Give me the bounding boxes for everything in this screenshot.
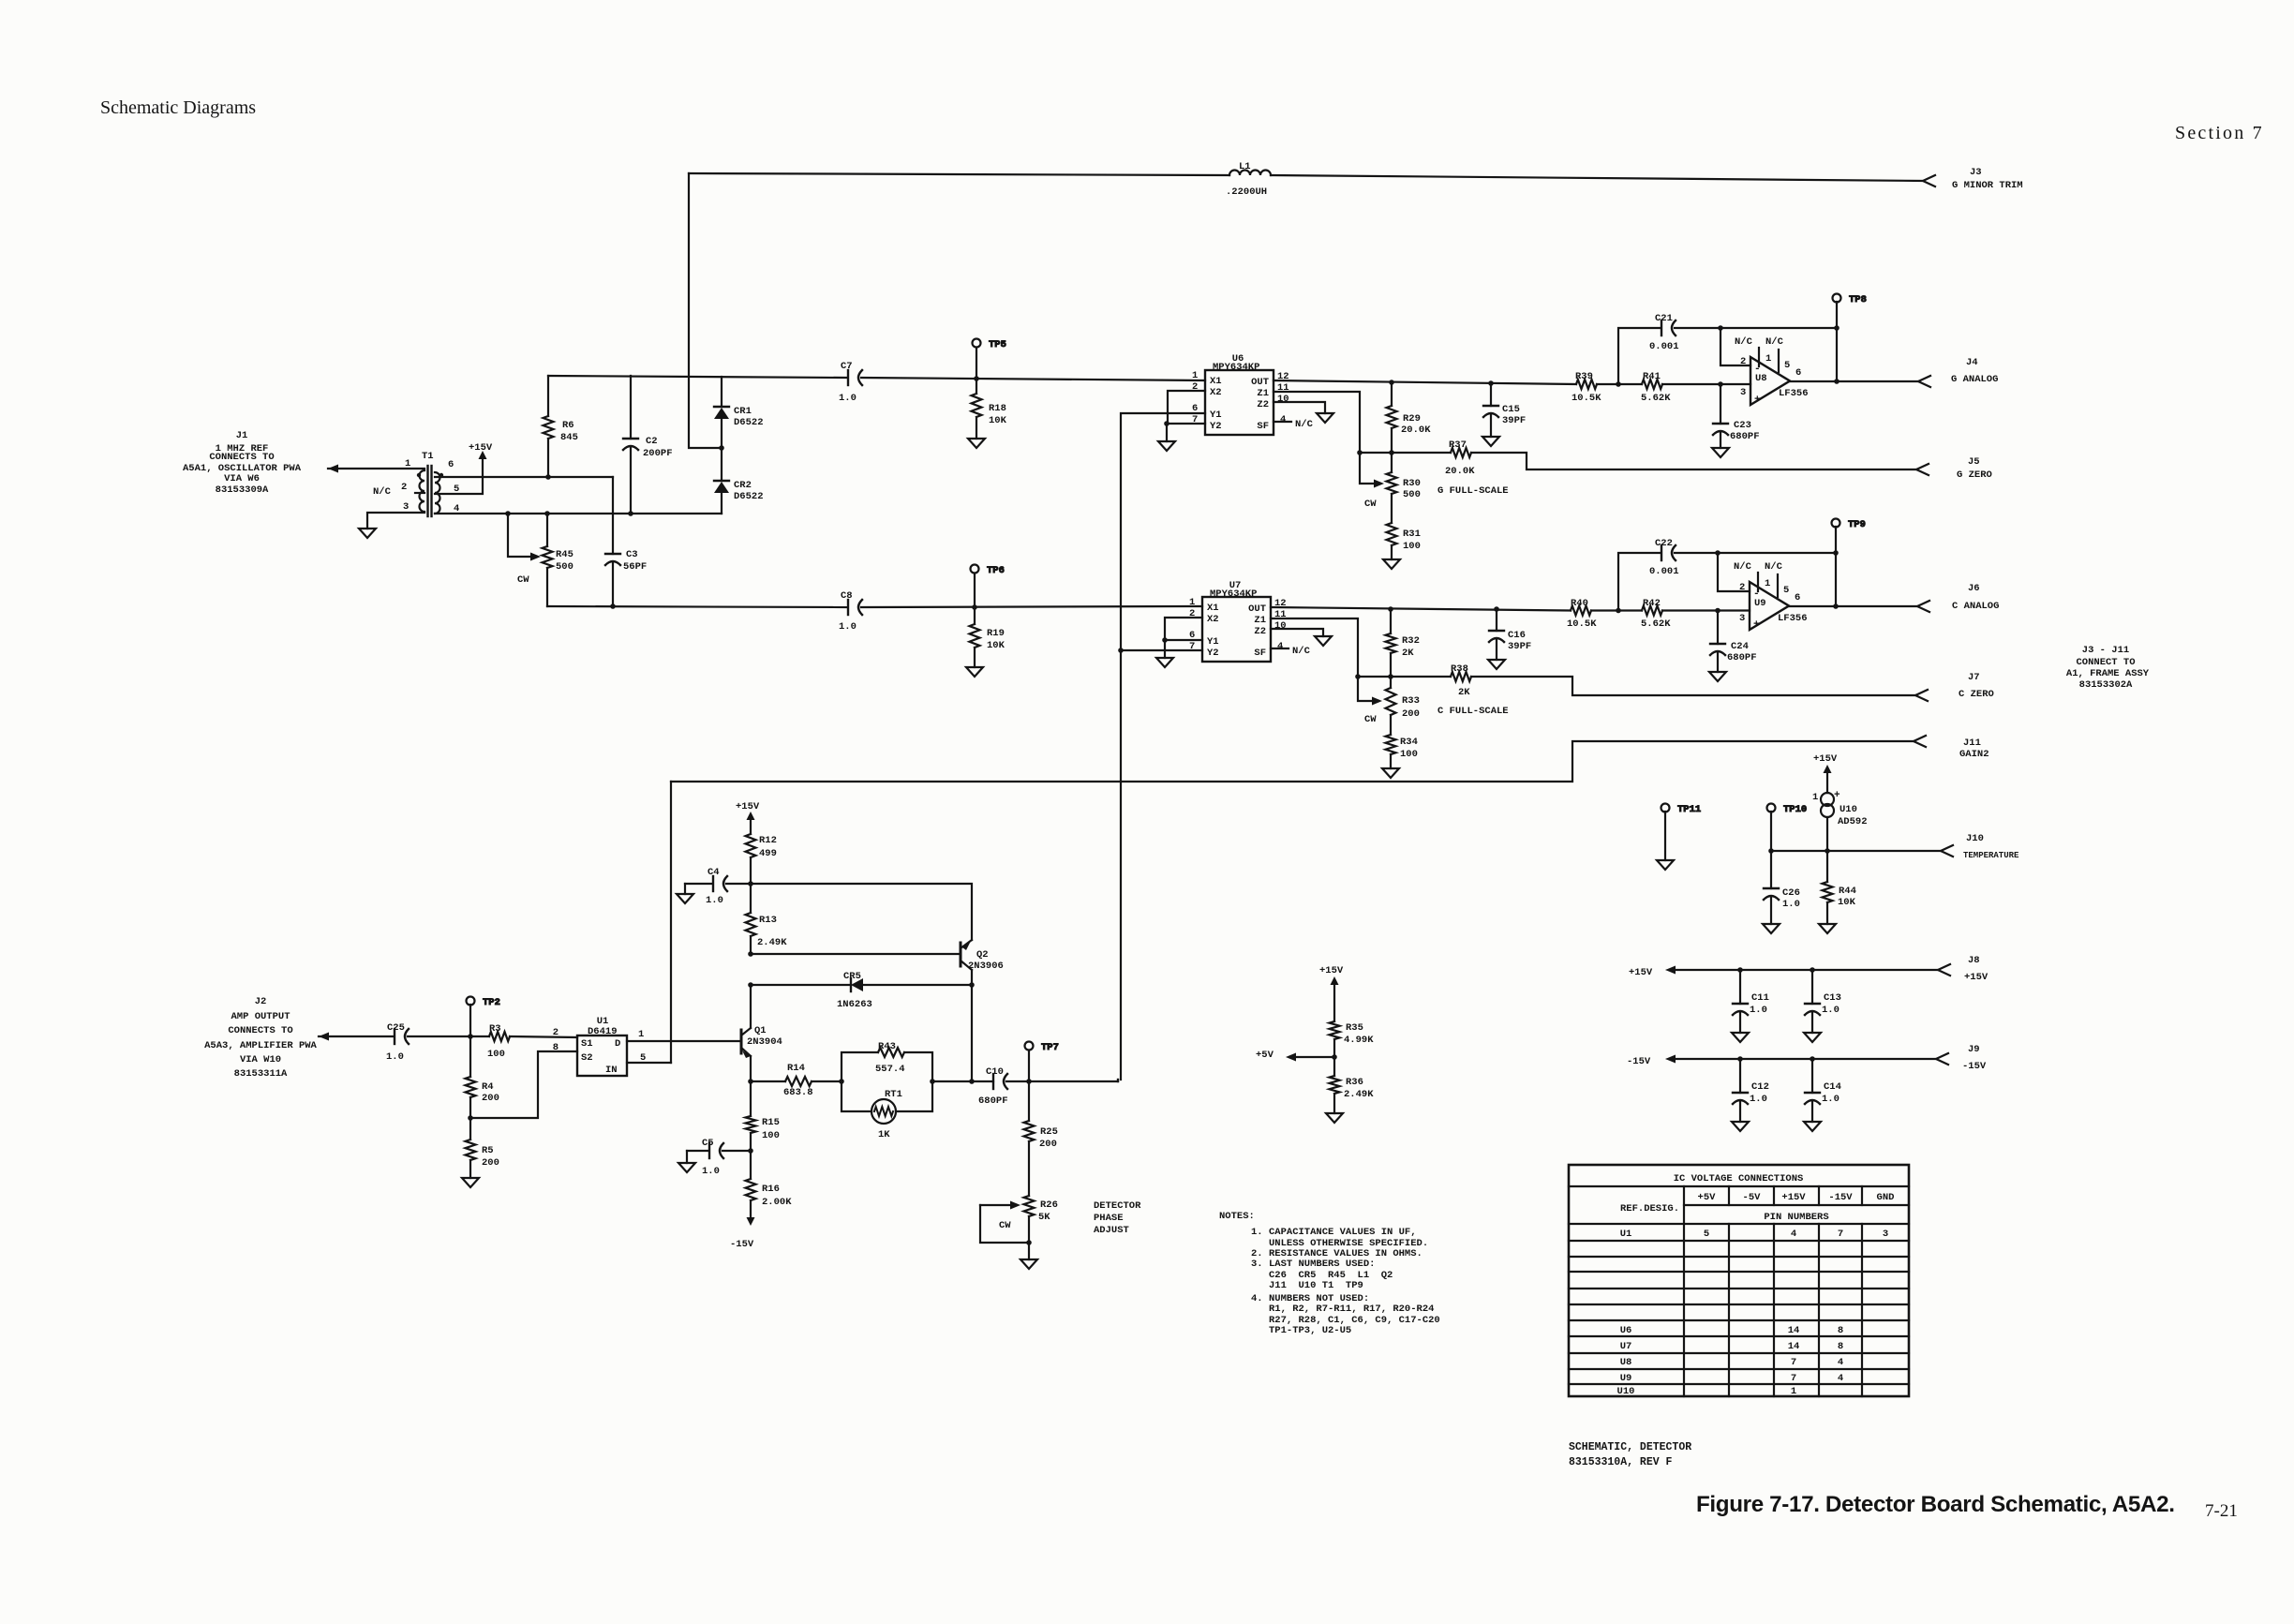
svg-text:R12: R12 [759, 835, 777, 846]
resistor R44 [1823, 851, 1856, 924]
svg-text:U10: U10 [1840, 804, 1857, 815]
svg-text:AMP OUTPUT: AMP OUTPUT [231, 1011, 290, 1022]
svg-text:-15V: -15V [730, 1239, 754, 1250]
svg-text:4: 4 [1838, 1373, 1843, 1384]
wire R26 to ground [1028, 1243, 1030, 1259]
svg-text:2N3906: 2N3906 [968, 961, 1004, 972]
svg-text:.2200UH: .2200UH [1226, 186, 1267, 198]
svg-text:J8: J8 [1968, 955, 1980, 966]
svg-text:8: 8 [1838, 1325, 1843, 1336]
resistor R6 [544, 376, 578, 477]
svg-text:6: 6 [448, 459, 454, 470]
notes text [1219, 1211, 1440, 1336]
svg-text:OUT: OUT [1248, 603, 1266, 615]
testpoint TP9 [1832, 519, 1866, 607]
svg-text:10.5K: 10.5K [1572, 393, 1601, 404]
svg-text:R19: R19 [987, 628, 1005, 639]
svg-text:J11: J11 [1963, 738, 1981, 749]
svg-text:Figure 7-17. Detector Board Sc: Figure 7-17. Detector Board Schematic, A… [1696, 1492, 2175, 1517]
wire R37 row [1360, 452, 1451, 454]
ground at R18 [968, 439, 985, 448]
svg-text:5: 5 [1784, 360, 1790, 371]
svg-text:6: 6 [1795, 592, 1800, 603]
svg-text:CONNECT TO: CONNECT TO [2076, 657, 2135, 668]
wire J2 output [319, 1035, 393, 1037]
svg-text:3: 3 [1739, 613, 1745, 624]
svg-text:C12: C12 [1751, 1081, 1769, 1093]
inductor L1 [1226, 161, 1271, 198]
svg-text:200PF: 200PF [643, 448, 673, 459]
resistor R3 [487, 1023, 510, 1060]
op-amp U8 [1735, 336, 1809, 406]
connector J6 arrow [1917, 601, 1929, 612]
wire C21 node to U8 pin2 [1720, 328, 1750, 365]
svg-text:2: 2 [553, 1027, 559, 1038]
svg-text:C3: C3 [626, 549, 638, 560]
svg-text:GND: GND [1877, 1192, 1895, 1203]
svg-text:C26: C26 [1782, 887, 1800, 899]
resistor R41 [1641, 371, 1671, 404]
resistor R32 [1386, 609, 1420, 677]
current source U10 AD592 [1812, 772, 1868, 827]
svg-text:R29: R29 [1403, 413, 1421, 425]
svg-text:G ANALOG: G ANALOG [1951, 374, 1998, 385]
svg-text:R43: R43 [878, 1041, 896, 1052]
wire R43 to C10 [932, 1080, 993, 1082]
svg-text:VIA W10: VIA W10 [240, 1054, 281, 1065]
svg-text:J3 - J11: J3 - J11 [2082, 645, 2129, 656]
svg-text:R31: R31 [1403, 529, 1421, 540]
svg-text:-5V: -5V [1743, 1192, 1762, 1203]
page header text [100, 97, 2264, 143]
svg-text:1: 1 [1189, 597, 1195, 608]
svg-text:ADJUST: ADJUST [1094, 1225, 1129, 1236]
svg-text:+5V: +5V [1256, 1050, 1274, 1061]
svg-text:R5: R5 [482, 1145, 494, 1156]
connector J10 arrow [1941, 845, 1953, 857]
svg-text:R25: R25 [1040, 1126, 1058, 1138]
resistor R4 [466, 1036, 499, 1118]
wire R42 to U9 pin3 [1662, 609, 1750, 611]
wire L1 to J3 [1271, 175, 1923, 181]
svg-text:A5A3, AMPLIFIER PWA: A5A3, AMPLIFIER PWA [204, 1040, 317, 1051]
resistor R38 [1451, 663, 1471, 698]
svg-text:R40: R40 [1571, 598, 1588, 609]
svg-text:39PF: 39PF [1508, 641, 1531, 652]
svg-text:10.5K: 10.5K [1567, 618, 1597, 630]
svg-text:14: 14 [1788, 1325, 1800, 1336]
ground at R31 [1383, 559, 1400, 569]
testpoint TP10 [1767, 804, 1808, 852]
svg-text:2K: 2K [1458, 687, 1470, 698]
svg-text:+15V: +15V [1629, 967, 1653, 978]
svg-text:N/C: N/C [1735, 336, 1753, 348]
capacitor C3 [605, 477, 647, 606]
svg-text:MPY634KP: MPY634KP [1210, 589, 1257, 600]
svg-text:2: 2 [1739, 582, 1745, 593]
svg-text:-15V: -15V [1962, 1061, 1987, 1072]
svg-text:N/C: N/C [1765, 336, 1784, 348]
capacitor C26 [1764, 851, 1800, 924]
ground at C24 [1709, 672, 1726, 681]
svg-text:CR2: CR2 [734, 480, 752, 491]
svg-text:10: 10 [1277, 394, 1289, 405]
svg-text:AD592: AD592 [1838, 816, 1868, 827]
potentiometer R30 [1364, 453, 1421, 523]
testpoint TP2 [467, 997, 500, 1037]
svg-text:8: 8 [1838, 1341, 1843, 1352]
svg-text:500: 500 [1403, 489, 1421, 500]
svg-text:R6: R6 [562, 420, 574, 431]
svg-text:R1, R2, R7-R11, R17, R20-R24: R1, R2, R7-R11, R17, R20-R24 [1269, 1304, 1434, 1315]
svg-text:CONNECTS TO: CONNECTS TO [228, 1025, 292, 1036]
svg-text:1.0: 1.0 [702, 1166, 720, 1177]
svg-text:-15V: -15V [1828, 1192, 1853, 1203]
ground at R5 [462, 1178, 479, 1187]
svg-text:683.8: 683.8 [783, 1087, 813, 1098]
power +15V divider [1319, 965, 1344, 985]
resistor R45 (pot) [508, 514, 573, 606]
note detector phase adjust [1094, 1200, 1141, 1236]
svg-text:R37: R37 [1449, 440, 1467, 451]
transistor Q2 [961, 940, 1004, 972]
svg-text:U6: U6 [1620, 1325, 1632, 1336]
svg-text:VIA W6: VIA W6 [224, 473, 260, 484]
svg-text:R15: R15 [762, 1117, 780, 1128]
svg-text:REF.DESIG.: REF.DESIG. [1620, 1203, 1679, 1214]
capacitor C16 [1489, 609, 1531, 660]
svg-text:J4: J4 [1966, 357, 1978, 368]
svg-text:200: 200 [482, 1157, 499, 1169]
svg-text:4: 4 [1277, 641, 1283, 652]
svg-text:Y2: Y2 [1210, 421, 1222, 432]
svg-text:X2: X2 [1210, 387, 1222, 398]
svg-text:0.001: 0.001 [1649, 566, 1679, 577]
wire R14 row [751, 1080, 785, 1082]
op-amp U9 [1734, 561, 1808, 631]
svg-text:LF356: LF356 [1779, 388, 1809, 399]
wire U1 D to Q1 base [627, 1040, 741, 1042]
power +15V at T1 [479, 451, 487, 459]
ground at C4 [677, 884, 711, 903]
svg-text:N/C: N/C [1765, 561, 1783, 573]
svg-text:14: 14 [1788, 1341, 1800, 1352]
svg-text:1.0: 1.0 [1822, 1094, 1840, 1105]
wire T1 pin6 to R6 and C3 [435, 476, 613, 478]
svg-text:C8: C8 [841, 590, 853, 602]
svg-text:DETECTOR: DETECTOR [1094, 1200, 1141, 1212]
svg-text:C4: C4 [708, 867, 720, 878]
svg-text:680PF: 680PF [978, 1095, 1008, 1107]
svg-text:499: 499 [759, 848, 777, 859]
svg-text:+15V: +15V [736, 801, 760, 812]
svg-text:U10: U10 [1617, 1386, 1635, 1397]
wire J8 +15V rail [1676, 969, 1938, 971]
svg-text:U8: U8 [1755, 373, 1767, 384]
svg-text:J1: J1 [236, 430, 248, 441]
svg-text:PHASE: PHASE [1094, 1213, 1124, 1224]
svg-text:4: 4 [1838, 1357, 1843, 1368]
svg-text:1.0: 1.0 [1822, 1005, 1840, 1016]
svg-text:1.0: 1.0 [1750, 1094, 1767, 1105]
svg-text:R34: R34 [1400, 737, 1418, 748]
svg-text:R30: R30 [1403, 478, 1421, 489]
svg-text:R45: R45 [556, 549, 573, 560]
svg-text:MPY634KP: MPY634KP [1213, 362, 1259, 373]
schematic footer text [1569, 1441, 1691, 1468]
svg-text:U1: U1 [1620, 1229, 1632, 1240]
svg-text:6: 6 [1795, 367, 1801, 379]
wire C10 to TP7 riser [1006, 1080, 1118, 1082]
resistor R14 [783, 1063, 813, 1098]
svg-text:N/C: N/C [373, 486, 392, 498]
svg-text:D6522: D6522 [734, 491, 764, 502]
wire J3 net top bus [689, 173, 1229, 175]
svg-text:1.0: 1.0 [706, 895, 723, 906]
svg-text:C13: C13 [1824, 992, 1841, 1004]
connector J4 arrow [1918, 376, 1930, 387]
svg-text:N/C: N/C [1292, 646, 1311, 657]
wire U6 X2 to ground riser [1168, 391, 1205, 424]
wire U7 Y2 to long riser [1121, 649, 1202, 651]
svg-text:+15V: +15V [1964, 972, 1989, 983]
svg-text:R18: R18 [989, 403, 1006, 414]
svg-text:TEMPERATURE: TEMPERATURE [1963, 851, 2019, 860]
svg-text:1.: 1. [1251, 1227, 1263, 1238]
resistor R36 [1330, 1057, 1375, 1113]
svg-text:4.: 4. [1251, 1293, 1263, 1304]
svg-text:1: 1 [1812, 792, 1818, 803]
svg-text:GAIN2: GAIN2 [1959, 749, 1989, 760]
capacitor C23 [1713, 384, 1760, 448]
svg-text:1.0: 1.0 [386, 1051, 404, 1063]
testpoint TP8 [1833, 294, 1867, 382]
svg-text:5.62K: 5.62K [1641, 393, 1671, 404]
svg-text:0.001: 0.001 [1649, 341, 1679, 352]
svg-text:R44: R44 [1839, 886, 1856, 897]
svg-text:+: + [1753, 619, 1760, 631]
diode CR5 [837, 971, 972, 1010]
wire +5V tap [1296, 1056, 1334, 1058]
svg-text:200: 200 [1402, 708, 1420, 720]
connector J7 arrow [1915, 690, 1928, 701]
connector J9 arrow [1936, 1053, 1948, 1065]
svg-text:10K: 10K [989, 415, 1007, 426]
svg-text:10K: 10K [987, 640, 1005, 651]
svg-text:-15V: -15V [1627, 1056, 1651, 1067]
wire top bus left riser [689, 173, 722, 448]
svg-text:U8: U8 [1620, 1357, 1632, 1368]
resistor R37 [1445, 440, 1475, 477]
svg-text:100: 100 [1400, 749, 1418, 760]
ground at C11 [1732, 1033, 1749, 1042]
svg-text:Schematic Diagrams: Schematic Diagrams [100, 97, 256, 118]
svg-text:CW: CW [1364, 499, 1377, 510]
svg-text:C16: C16 [1508, 630, 1526, 641]
testpoint TP6 [971, 565, 1005, 608]
resistor R40 [1567, 598, 1597, 630]
svg-text:10: 10 [1274, 620, 1287, 632]
connector J11 arrow [1914, 736, 1926, 747]
svg-text:IC VOLTAGE CONNECTIONS: IC VOLTAGE CONNECTIONS [1674, 1173, 1804, 1184]
svg-text:5: 5 [1704, 1229, 1709, 1240]
svg-text:680PF: 680PF [1727, 652, 1757, 663]
svg-text:+15V: +15V [1781, 1192, 1806, 1203]
svg-text:CW: CW [1364, 714, 1377, 725]
svg-text:J3: J3 [1970, 167, 1982, 178]
svg-text:R14: R14 [787, 1063, 805, 1074]
svg-text:1.0: 1.0 [1782, 899, 1800, 910]
svg-text:200: 200 [482, 1093, 499, 1104]
svg-text:J2: J2 [255, 996, 267, 1007]
wire Q1 collector [750, 985, 752, 1028]
wire Z1 node to R30 wiper [1360, 453, 1374, 484]
svg-text:20.0K: 20.0K [1445, 466, 1475, 477]
svg-text:G FULL-SCALE: G FULL-SCALE [1437, 485, 1509, 497]
power +15V at U10 [1813, 753, 1838, 773]
svg-text:TP2: TP2 [483, 997, 500, 1008]
svg-text:1: 1 [1765, 578, 1770, 589]
svg-text:SCHEMATIC, DETECTOR: SCHEMATIC, DETECTOR [1569, 1441, 1691, 1453]
svg-text:1.0: 1.0 [839, 621, 857, 633]
svg-text:J5: J5 [1968, 456, 1980, 468]
resistor R18 [972, 379, 1007, 439]
wire R14 to R43 network [812, 1080, 842, 1082]
svg-text:N/C: N/C [1295, 419, 1314, 430]
svg-text:2N3904: 2N3904 [747, 1036, 782, 1048]
svg-text:LAST NUMBERS USED:: LAST NUMBERS USED: [1269, 1259, 1375, 1270]
svg-text:1N6263: 1N6263 [837, 999, 872, 1010]
wire U7 Z2 to ground [1271, 629, 1323, 636]
capacitor C25 [386, 1022, 409, 1063]
svg-text:R26: R26 [1040, 1199, 1058, 1211]
wire U6 SF N/C stub [1274, 421, 1291, 423]
wire R38 to J7 [1471, 677, 1915, 695]
svg-text:CR5: CR5 [843, 971, 861, 982]
svg-text:Q1: Q1 [754, 1025, 767, 1036]
svg-text:R13: R13 [759, 915, 777, 926]
wire U9 output to J6 [1789, 605, 1917, 607]
wire Q2 collector to C10 row [971, 985, 973, 1081]
wire U6 Z2 to ground [1274, 402, 1325, 413]
svg-text:3: 3 [1740, 387, 1746, 398]
svg-text:C15: C15 [1502, 404, 1520, 415]
svg-text:4: 4 [1791, 1229, 1796, 1240]
ground at C14 [1804, 1122, 1821, 1131]
capacitor C21 feedback [1618, 313, 1837, 384]
svg-text:PIN NUMBERS: PIN NUMBERS [1764, 1212, 1828, 1223]
wire U6 Y2 to ground [1166, 423, 1205, 425]
capacitor C12 [1733, 1059, 1769, 1122]
wire U7 X2 to ground riser [1165, 618, 1202, 640]
svg-text:+15V: +15V [1813, 753, 1838, 765]
wire U7 Z1 to R38 node [1271, 618, 1358, 677]
resistor R42 [1641, 598, 1671, 630]
svg-text:R36: R36 [1346, 1077, 1363, 1088]
svg-text:2.00K: 2.00K [762, 1197, 792, 1208]
svg-text:TP5: TP5 [989, 339, 1006, 350]
svg-text:83153310A, REV F: 83153310A, REV F [1569, 1456, 1673, 1468]
svg-text:4: 4 [1280, 414, 1286, 425]
svg-text:+: + [1754, 395, 1761, 406]
svg-text:R38: R38 [1451, 663, 1468, 675]
wire U7 Y1 to ground [1165, 639, 1202, 641]
power -15V at R16 [730, 1217, 755, 1250]
wire R3 to U1 S1 [510, 1036, 577, 1037]
ground at R44 [1819, 924, 1836, 933]
wire T1 pin5 to +15V [435, 458, 483, 494]
ground at U6 X2 Y2 [1158, 424, 1175, 451]
svg-text:+5V: +5V [1698, 1192, 1717, 1203]
svg-text:100: 100 [487, 1049, 505, 1060]
wire U7 OUT to R40 [1271, 607, 1571, 611]
connector J8 arrow [1938, 964, 1950, 976]
wire J9 -15V rail [1676, 1058, 1936, 1060]
svg-text:RT1: RT1 [885, 1089, 902, 1100]
ground at U6 Z2 [1317, 413, 1333, 423]
capacitor C22 feedback [1618, 538, 1836, 611]
svg-text:R4: R4 [482, 1081, 494, 1093]
svg-text:G MINOR TRIM: G MINOR TRIM [1952, 180, 2023, 191]
svg-text:D6419: D6419 [588, 1026, 618, 1037]
capacitor C8 [839, 590, 862, 633]
svg-text:83153311A: 83153311A [234, 1068, 288, 1080]
svg-text:J6: J6 [1968, 583, 1980, 594]
capacitor C13 [1805, 970, 1841, 1033]
ground at C15 [1482, 437, 1499, 446]
svg-text:CW: CW [999, 1220, 1011, 1231]
svg-text:C11: C11 [1751, 992, 1769, 1004]
svg-text:56PF: 56PF [623, 561, 647, 573]
svg-text:3.: 3. [1251, 1259, 1263, 1270]
svg-text:2.49K: 2.49K [1344, 1089, 1374, 1100]
transistor Q1 [741, 1025, 782, 1058]
svg-text:G ZERO: G ZERO [1957, 469, 1992, 481]
svg-text:100: 100 [1403, 541, 1421, 552]
wire Q2 collector down [971, 970, 973, 985]
svg-text:X1: X1 [1207, 603, 1219, 614]
svg-text:C FULL-SCALE: C FULL-SCALE [1437, 706, 1509, 717]
svg-text:+15V: +15V [469, 442, 493, 454]
svg-text:D: D [615, 1038, 620, 1050]
svg-text:R3: R3 [489, 1023, 501, 1035]
resistor R39 [1572, 371, 1601, 404]
wire T1 pin3 to ground [367, 513, 425, 529]
resistor R35 [1330, 985, 1375, 1057]
ground at U7 X2 Y1 [1156, 640, 1173, 667]
svg-text:Y2: Y2 [1207, 648, 1219, 659]
svg-text:3: 3 [403, 501, 409, 513]
wire long riser to detector drive [1120, 650, 1122, 1080]
capacitor C7 [839, 361, 862, 404]
svg-text:LF356: LF356 [1778, 613, 1808, 624]
ground at R26 [1020, 1259, 1037, 1269]
wire T1 pin4 bus [435, 513, 722, 514]
ground at C5 [686, 1151, 688, 1163]
svg-text:R41: R41 [1643, 371, 1661, 382]
svg-text:CR1: CR1 [734, 406, 752, 417]
ground at TP11 [1657, 860, 1674, 870]
svg-text:R42: R42 [1643, 598, 1661, 609]
testpoint TP7 [1025, 1042, 1059, 1082]
resistor R19 [970, 607, 1005, 667]
wire U6 Z1 to R37 node [1274, 392, 1360, 453]
potentiometer R33 [1364, 677, 1420, 735]
resistor R43 parallel RT1 [842, 1041, 932, 1140]
connector J3 arrow [1923, 175, 1935, 186]
svg-text:X2: X2 [1207, 614, 1219, 625]
wire R40 to R42 [1591, 609, 1642, 611]
